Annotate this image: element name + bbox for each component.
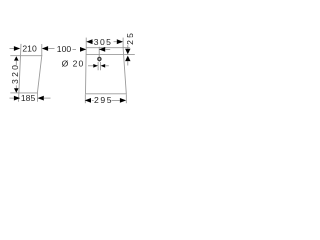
svg-text:305: 305 [94, 37, 113, 47]
svg-text:210: 210 [22, 43, 37, 53]
svg-text:320: 320 [10, 63, 20, 84]
svg-text:Ø 20: Ø 20 [62, 58, 85, 68]
svg-text:25: 25 [125, 31, 135, 45]
svg-text:185: 185 [21, 93, 36, 103]
svg-text:295: 295 [94, 95, 113, 105]
svg-text:100: 100 [57, 44, 72, 54]
